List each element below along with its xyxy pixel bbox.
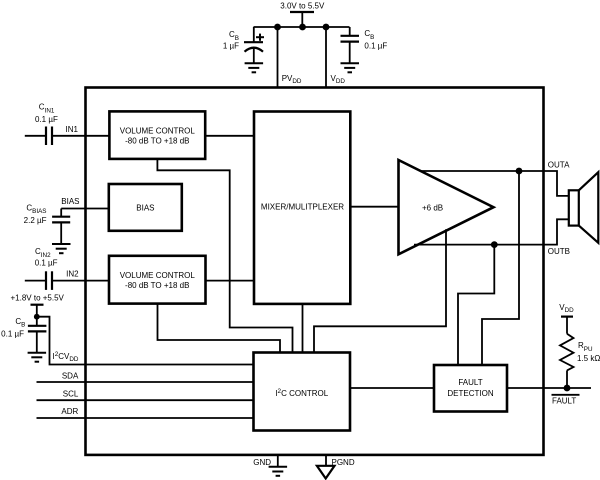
svg-text:I2C CONTROL: I2C CONTROL [275,388,328,398]
wire amp feedback to I2C control [314,229,446,352]
node junction center on rail [299,24,306,31]
svg-text:VOLUME CONTROL: VOLUME CONTROL [120,271,196,280]
speaker LS1 [569,172,599,243]
block BIAS [109,184,182,231]
svg-text:SDA: SDA [62,371,79,380]
ground symbol below CB left [245,63,264,72]
wire resistor to FAULT [566,370,568,388]
svg-text:FAULT: FAULT [458,378,482,387]
capacitor CBIAS 2.2uF [52,217,70,223]
svg-text:VOLUME CONTROL: VOLUME CONTROL [120,127,196,136]
node OUTB junction [491,241,498,248]
block FAULT DETECTION [434,365,507,412]
wire IN1 input [25,135,46,137]
svg-text:SCL: SCL [63,389,79,398]
svg-text:OUTA: OUTA [548,161,570,170]
capacitor CIN2 0.1uF [46,271,52,290]
svg-text:BIAS: BIAS [61,197,79,206]
resistor RPU 1.5k [560,334,574,371]
wire VC1 to I2C control [157,159,292,353]
wire ADR [37,417,254,419]
wire IN1 to box [52,135,109,137]
ground symbol PGND (open triangle) [317,466,335,479]
block MIXER/MULITPLEXER [254,112,350,304]
svg-text:MIXER/MULITPLEXER: MIXER/MULITPLEXER [261,203,344,212]
wire BIAS pin [61,208,108,210]
wire mixer to I2C control [302,304,304,353]
wire to bulk cap CB right [349,27,351,36]
svg-text:GND: GND [253,458,271,467]
wire supply rail [254,26,350,28]
block VOLUME CONTROL 2 [109,256,206,304]
VDD terminal bar [561,316,573,318]
svg-text:FAULT: FAULT [552,397,576,406]
wire BIAS cap stub [60,209,62,217]
wire OUTB to fault detection [458,245,494,365]
wire PVDD supply line [277,27,279,88]
wire cap to ground [253,48,255,63]
wire cap to ground [36,331,38,352]
I2C supply terminal bar [31,304,44,306]
capacitor CIN1 0.1uF [46,127,52,146]
wire PGND stub [325,455,327,466]
device outer box U1 [86,88,544,455]
node I2CVDD junction [34,314,40,320]
svg-text:ADR: ADR [61,407,78,416]
svg-text:0.1 µF: 0.1 µF [1,329,24,338]
svg-text:IN2: IN2 [66,270,79,279]
wire CBIAS to ground [60,222,62,244]
svg-text:0.1 µF: 0.1 µF [35,259,58,268]
svg-text:3.0V to 5.5V: 3.0V to 5.5V [280,2,325,11]
ground symbol below CB right [341,63,360,72]
wire supply stub [301,12,303,27]
svg-text:0.1 µF: 0.1 µF [35,115,58,124]
ground symbol below CBIAS [52,244,71,253]
wire mixer to amp [350,206,398,208]
wire VC1 to mixer [205,135,254,137]
wire IN2 input [25,280,46,282]
svg-text:1 µF: 1 µF [223,42,239,51]
wire VC2 to mixer [206,280,255,282]
wire OUTA [421,171,569,196]
node FAULT junction [564,385,571,392]
wire to bulk cap CB left [253,27,255,42]
wire I2C to fault detection [350,387,434,389]
wire I2C supply stub [36,305,38,326]
svg-text:+6 dB: +6 dB [422,203,443,212]
wire OUTB [414,219,569,244]
svg-text:+1.8V to +5.5V: +1.8V to +5.5V [11,294,65,303]
node junction left on rail [274,24,281,31]
svg-text:BIAS: BIAS [136,204,154,213]
wire VDD supply line [325,27,327,88]
wire VDD to resistor [566,317,568,334]
wire FAULT output [507,387,591,389]
svg-text:1.5 kΩ: 1.5 kΩ [577,354,600,363]
svg-text:0.1 µF: 0.1 µF [364,41,387,50]
capacitor CB 0.1uF (I2C supply) [28,326,47,332]
capacitor CB 0.1uF [341,36,360,42]
svg-text:IN1: IN1 [66,125,79,134]
node OUTA junction [516,168,523,175]
ground symbol GND [269,467,288,476]
capacitor CB 1uF polarized [244,34,264,52]
wire SCL [37,399,254,401]
wire OUTA to fault detection [482,171,519,365]
svg-text:PGND: PGND [332,458,355,467]
wire VC2 to I2C control [158,304,281,353]
supply terminal bar [290,11,314,13]
svg-text:DETECTION: DETECTION [447,389,493,398]
wire SDA [37,381,254,383]
wire cap to ground [349,42,351,64]
wire IN2 to box [52,280,109,282]
node junction right on rail [323,24,330,31]
svg-text:2.2 µF: 2.2 µF [24,216,47,225]
block I2C CONTROL [254,353,351,431]
svg-text:-80 dB TO +18 dB: -80 dB TO +18 dB [125,281,189,290]
op-amp power amplifier +6 dB [399,160,494,254]
ground symbol below CB (I2C supply) [28,353,46,362]
wire I2CVDD [37,317,254,365]
block VOLUME CONTROL 1 [109,111,205,158]
wire GND stub [277,455,279,467]
svg-text:-80 dB TO +18 dB: -80 dB TO +18 dB [125,137,189,146]
svg-text:OUTB: OUTB [548,247,570,256]
